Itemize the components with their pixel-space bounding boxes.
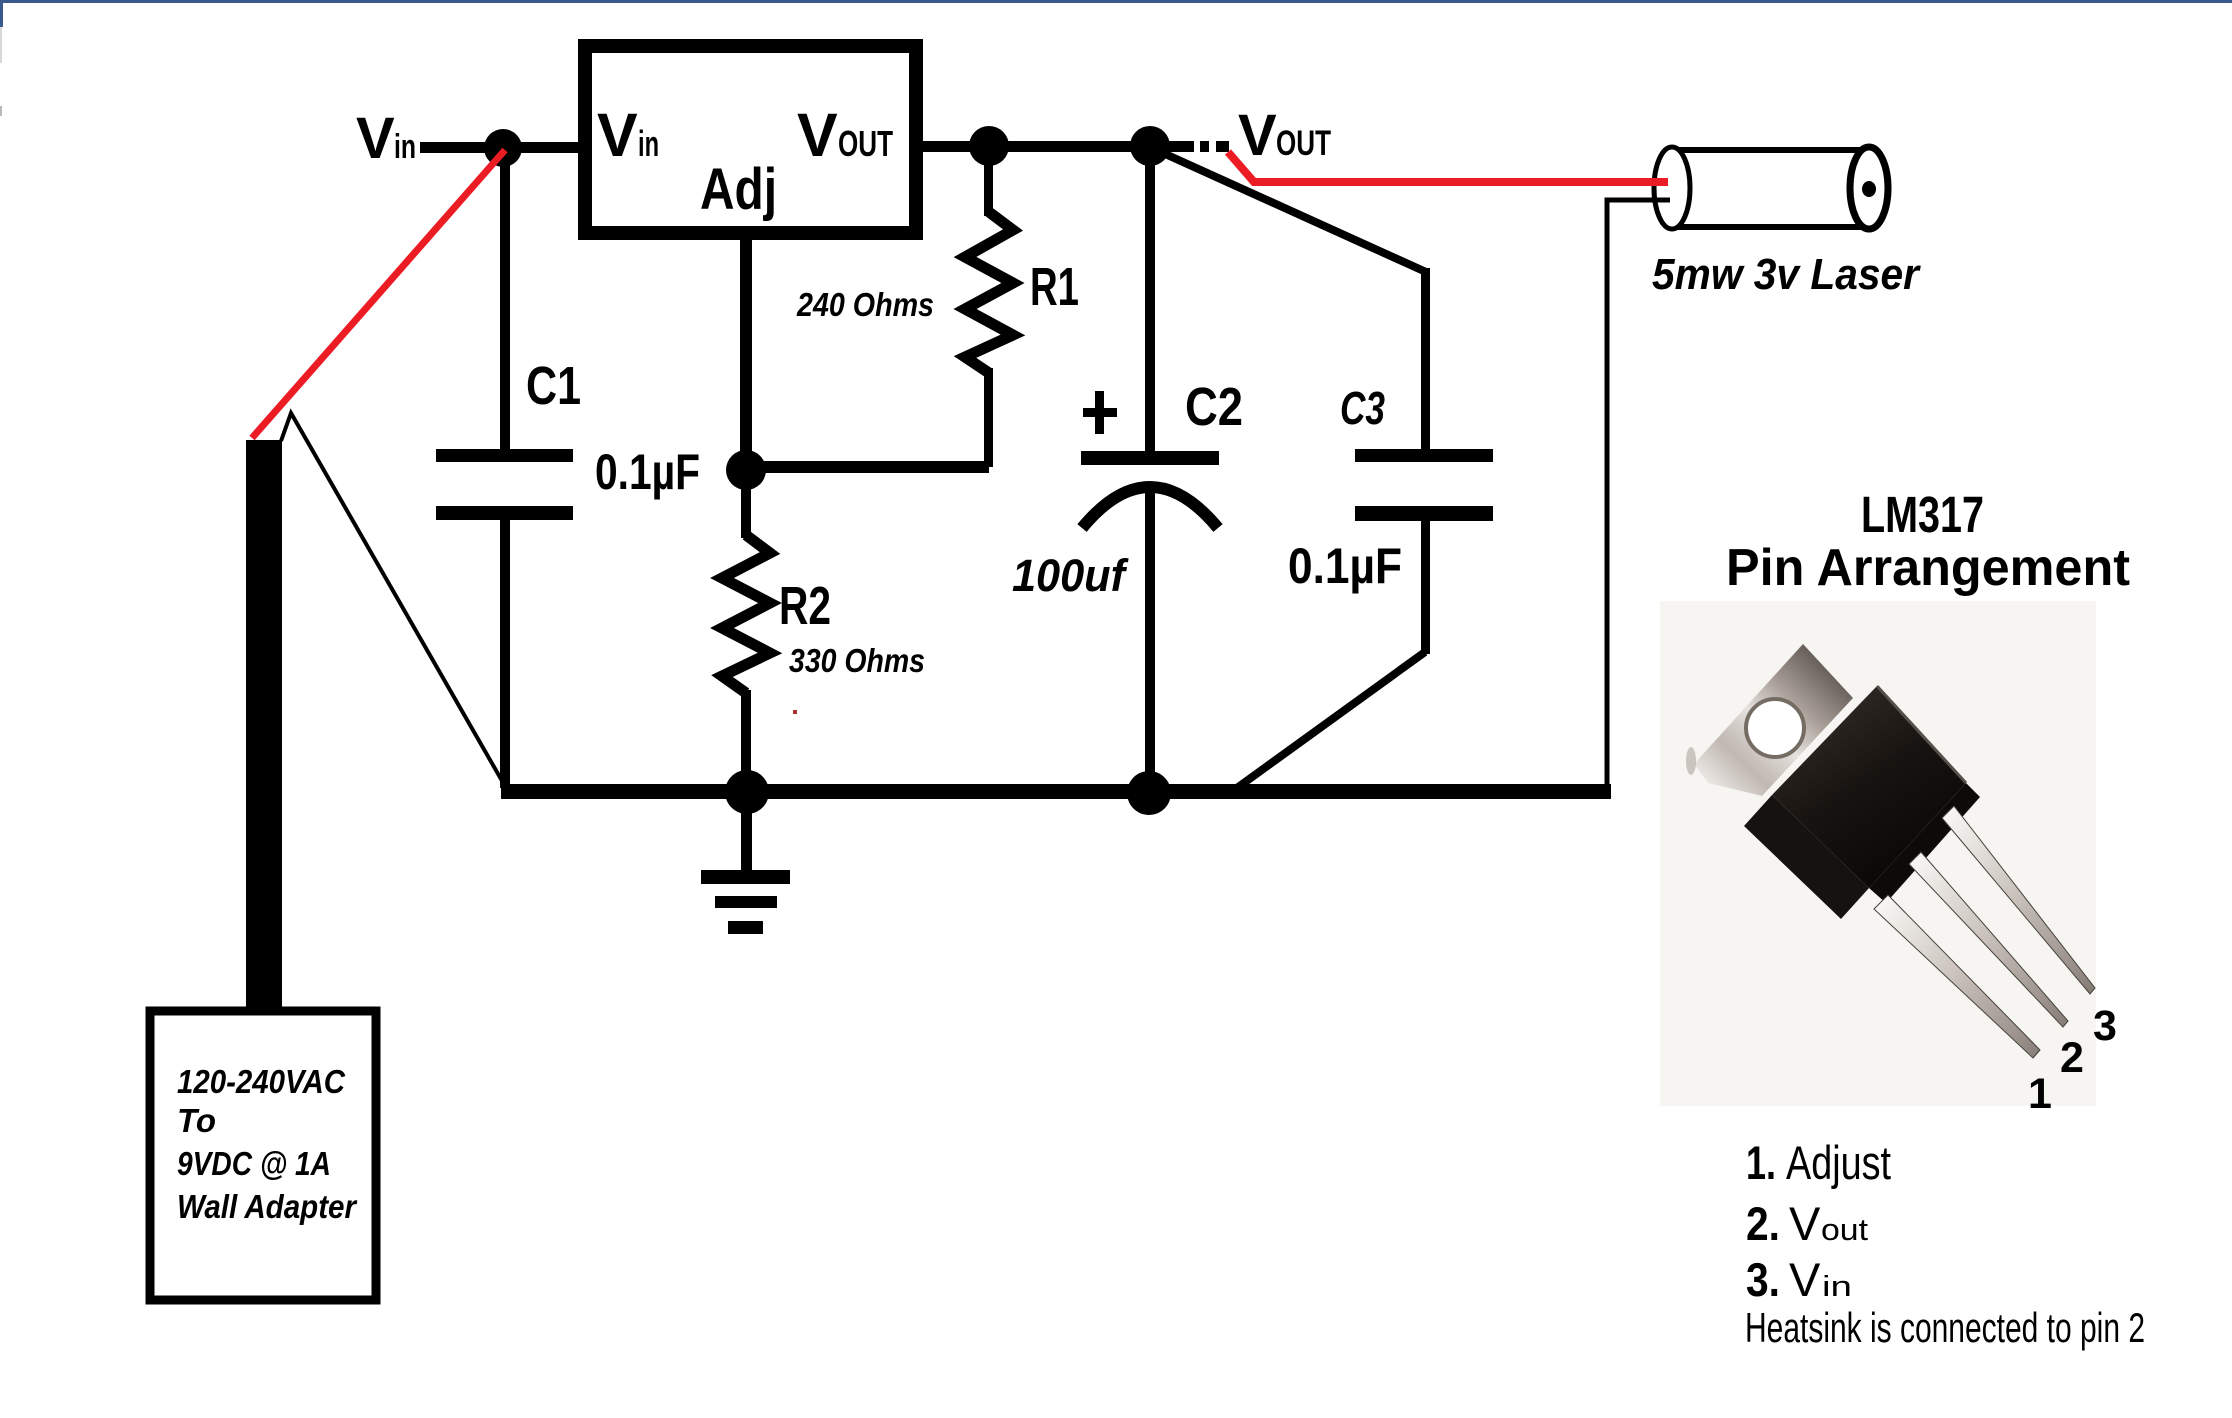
red dust dot bbox=[793, 710, 797, 714]
svg-text:Pin Arrangement: Pin Arrangement bbox=[1726, 539, 2130, 597]
svg-text:V: V bbox=[1789, 1197, 1821, 1250]
wire Adj pin of box bbox=[740, 240, 752, 452]
wire laser return (black) bbox=[1607, 200, 1670, 792]
capacitor C3 bbox=[1355, 449, 1493, 521]
node 1 (Vin input node) bbox=[484, 129, 522, 167]
transistor U2 TO-220 package photo bbox=[1694, 644, 2095, 1058]
svg-text:C2: C2 bbox=[1185, 377, 1243, 437]
svg-text:out: out bbox=[1821, 1212, 1868, 1247]
capacitor C2 upper lead bbox=[1145, 157, 1155, 453]
wire node 2 to node 3 bbox=[989, 141, 1150, 152]
svg-text:5mw 3v Laser: 5mw 3v Laser bbox=[1652, 250, 1922, 299]
svg-text:in: in bbox=[1822, 1271, 1852, 1303]
label 1. Adjust bbox=[1746, 1136, 1891, 1189]
svg-text:100uf: 100uf bbox=[1012, 550, 1129, 601]
node 2 (VOUT / R1 node) bbox=[969, 126, 1009, 166]
svg-text:V: V bbox=[356, 106, 395, 171]
svg-text:1: 1 bbox=[2028, 1070, 2052, 1118]
svg-text:2.: 2. bbox=[1746, 1197, 1780, 1250]
pin label Vin (box) bbox=[597, 101, 659, 169]
capacitor C1 lower lead bbox=[500, 520, 510, 788]
wire red from node 1 to adapter bbox=[252, 150, 505, 438]
svg-text:in: in bbox=[394, 128, 416, 166]
svg-text:V: V bbox=[797, 101, 838, 169]
wire node 3 to C3 (diagonal) bbox=[1152, 148, 1426, 272]
svg-text:Adjust: Adjust bbox=[1786, 1136, 1891, 1189]
wire Vin label to node 1 bbox=[420, 142, 503, 153]
svg-text:LM317: LM317 bbox=[1861, 486, 1984, 543]
capacitor C2 lower lead bbox=[1145, 489, 1155, 794]
wire node 3 to VOUT stub bbox=[1150, 141, 1194, 152]
gray smudge bbox=[1686, 747, 1696, 775]
laser cylinder bbox=[1654, 147, 1888, 229]
node 3 (output node) bbox=[1130, 126, 1170, 166]
svg-text:R2: R2 bbox=[779, 576, 831, 636]
op-amp U1 regulator LM317 box bbox=[585, 46, 916, 233]
pin label VOUT (box) bbox=[797, 101, 893, 169]
svg-text:R1: R1 bbox=[1030, 257, 1079, 317]
svg-text:120-240VAC: 120-240VAC bbox=[177, 1063, 346, 1100]
svg-text:240 Ohms: 240 Ohms bbox=[796, 286, 934, 323]
capacitor C2 plus sign bbox=[1083, 391, 1117, 434]
svg-text:0.1µF: 0.1µF bbox=[595, 444, 700, 500]
wire R1 to Adj node bbox=[746, 461, 989, 473]
node VOUT label (right) bbox=[1238, 103, 1331, 168]
svg-text:V: V bbox=[1789, 1253, 1821, 1306]
wire R1 lower lead bbox=[984, 368, 993, 467]
svg-text:V: V bbox=[597, 101, 638, 169]
top blue border artifact bbox=[0, 0, 2232, 3]
adapter cable bbox=[246, 440, 282, 1010]
node C (C2 bottom node) bbox=[1127, 771, 1171, 815]
ground bbox=[701, 799, 790, 934]
svg-text:OUT: OUT bbox=[838, 123, 893, 164]
wire R1 upper lead bbox=[984, 146, 993, 216]
svg-text:9VDC @ 1A: 9VDC @ 1A bbox=[177, 1145, 331, 1182]
resistor R1 bbox=[965, 212, 1013, 373]
wall adapter box bbox=[150, 1011, 376, 1300]
wire adapter to rail (thin black) bbox=[281, 413, 505, 786]
label 2. Vout bbox=[1746, 1197, 1868, 1250]
svg-text:OUT: OUT bbox=[1276, 124, 1331, 163]
wire R2 upper lead bbox=[741, 470, 751, 538]
svg-text:2: 2 bbox=[2060, 1034, 2084, 1082]
svg-text:Adj: Adj bbox=[700, 157, 777, 222]
photo background panel bbox=[1660, 601, 2096, 1106]
svg-text:3.: 3. bbox=[1746, 1253, 1780, 1306]
capacitor C3 upper lead bbox=[1421, 268, 1430, 451]
wire regulator box to node 2 bbox=[916, 141, 989, 152]
capacitor C3 lower lead bbox=[1421, 519, 1430, 654]
capacitor C1 upper lead bbox=[500, 157, 510, 452]
svg-text:C3: C3 bbox=[1340, 382, 1385, 434]
label 3. Vin bbox=[1746, 1253, 1852, 1306]
capacitor C2 (electrolytic) bbox=[1081, 451, 1219, 528]
svg-text:1.: 1. bbox=[1746, 1136, 1776, 1189]
svg-text:0.1µF: 0.1µF bbox=[1288, 538, 1402, 594]
svg-text:Heatsink is connected to pin 2: Heatsink is connected to pin 2 bbox=[1745, 1304, 2145, 1351]
node Vin label bbox=[356, 106, 416, 171]
svg-text:330 Ohms: 330 Ohms bbox=[789, 642, 925, 679]
node A (Adj node) bbox=[726, 450, 766, 490]
wire VOUT to laser (red) bbox=[1228, 152, 1668, 182]
wire node 1 to regulator box bbox=[503, 142, 585, 153]
wire C3 to rail (diagonal) bbox=[1230, 652, 1425, 793]
svg-text:Wall Adapter: Wall Adapter bbox=[177, 1188, 358, 1225]
svg-text:C1: C1 bbox=[526, 356, 581, 416]
wire R2 lower lead bbox=[741, 690, 751, 790]
wire bottom rail bbox=[501, 784, 1611, 799]
capacitor C1 bbox=[436, 449, 573, 520]
svg-text:in: in bbox=[638, 123, 659, 164]
svg-text:To: To bbox=[177, 1102, 216, 1139]
svg-text:3: 3 bbox=[2093, 1002, 2117, 1050]
resistor R2 bbox=[722, 535, 770, 693]
svg-text:V: V bbox=[1238, 103, 1277, 168]
node B (ground node) bbox=[725, 770, 769, 814]
